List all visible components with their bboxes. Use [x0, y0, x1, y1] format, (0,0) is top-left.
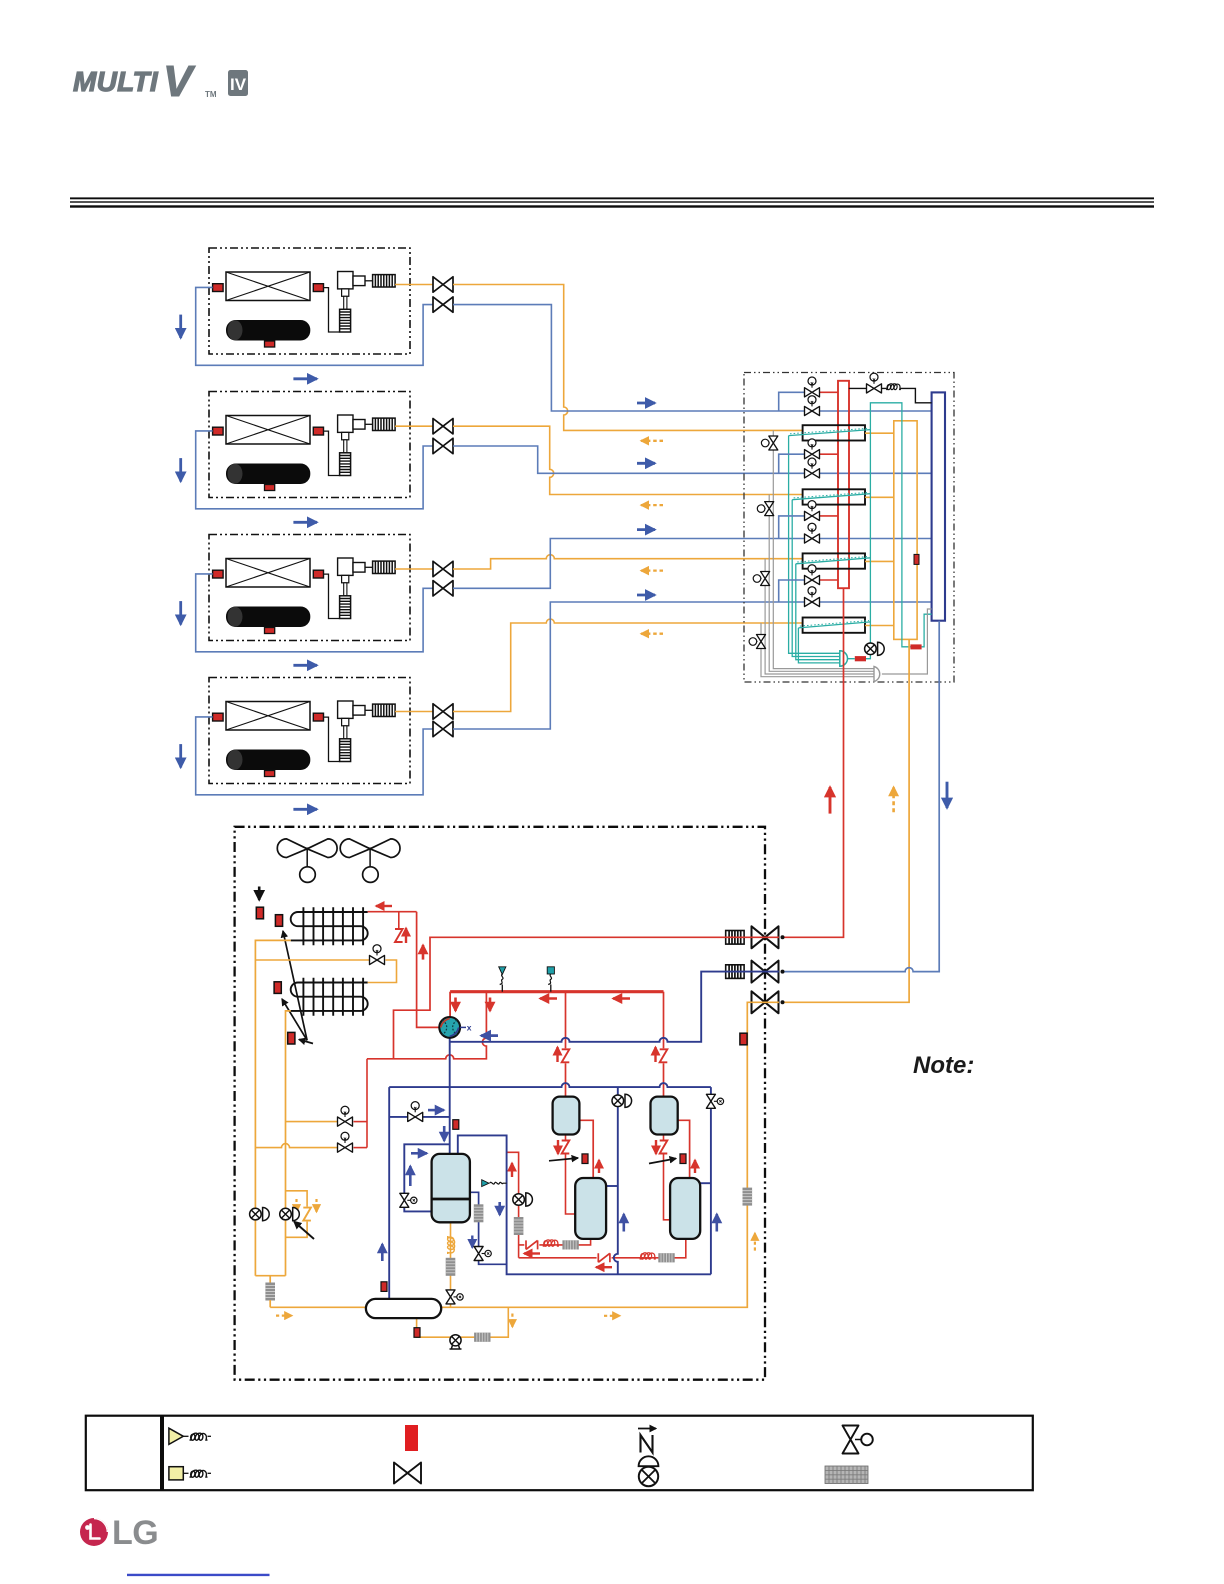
coil1 flow arrow — [376, 905, 392, 907]
outdoor EEV 1 — [250, 1208, 270, 1221]
compressor3 discharge arrow — [694, 1160, 696, 1173]
unit2 liquid shutoff valve — [433, 419, 453, 434]
unit4 liquid pipe to HR — [453, 619, 803, 712]
collector outlet sensor — [855, 656, 866, 661]
row2 capillary coil — [640, 1253, 656, 1259]
legend: capillary with square service port — [169, 1467, 211, 1480]
unit3 liquid stub — [395, 568, 433, 570]
coil2 liquid drop — [286, 1011, 291, 1276]
outdoor fan 1 — [277, 839, 337, 883]
branch1 suction solenoid — [805, 396, 820, 416]
subcool vapor collector — [840, 651, 848, 666]
header to four-way valve — [449, 992, 451, 1018]
EEV bypass loop — [286, 1191, 308, 1238]
branch3 suction solenoid — [805, 523, 820, 543]
oil drain valve — [450, 1335, 462, 1349]
branch1 hot-gas solenoid — [805, 377, 820, 397]
injection tap 1 — [286, 1121, 338, 1123]
injection EEV — [400, 1193, 417, 1207]
compressor3 suction branch — [710, 1087, 712, 1274]
outdoor air arrow — [258, 887, 261, 901]
branch4 hot-gas stub — [779, 580, 804, 602]
oil drain sensor — [414, 1328, 420, 1338]
oil separator 1 feed — [565, 992, 567, 1097]
branch4 hot-gas link — [820, 579, 838, 581]
legend: capillary Z with arrow — [638, 1429, 656, 1453]
indoor unit 4 — [209, 678, 410, 784]
outdoor unit enclosure — [235, 827, 765, 1380]
legend table frame — [86, 1416, 1033, 1491]
suction flow arrow down — [946, 782, 949, 808]
outdoor fan 2 — [340, 839, 400, 883]
bypass capillary coil — [886, 384, 901, 390]
sensor pointer arrow 1 — [283, 931, 307, 1040]
oil separator 2 — [651, 1097, 678, 1135]
compressor2 arrow up — [622, 1214, 625, 1232]
OS2 oil return — [664, 1135, 671, 1220]
compressor2 branch valve — [612, 1094, 632, 1107]
liquid dashed arrow up — [754, 1233, 756, 1251]
unit1 flow right arrow — [293, 377, 317, 380]
coil1 capillary stub — [398, 912, 400, 929]
subcool circuit diagonal 4 — [798, 622, 870, 628]
compressor1 injection loop — [404, 1144, 450, 1211]
header flow arrow down 2 — [489, 998, 492, 1012]
branch2 liquid outlet to header — [865, 496, 894, 498]
outdoor liquid sensor — [288, 1032, 295, 1044]
unit1 airflow down arrow — [179, 315, 182, 338]
MULTI V IV logo — [73, 57, 248, 106]
compressor3 branch valve — [706, 1094, 723, 1108]
injection solenoid link 1 — [354, 1121, 368, 1123]
line B arrow up — [511, 1163, 513, 1177]
bypass dashed arrow 1 — [295, 1199, 297, 1212]
branch4 relief valve — [749, 635, 765, 649]
unit4 liquid shutoff valve — [433, 704, 453, 719]
svg-text:Note:: Note: — [913, 1052, 974, 1079]
line B filter — [514, 1217, 524, 1235]
accumulator vessel — [366, 1299, 441, 1318]
unit4 gas pipe to HR — [453, 602, 932, 729]
outdoor air sensor — [256, 907, 263, 919]
filter outlet — [269, 1300, 271, 1307]
liquid header — [894, 421, 917, 640]
branch1 gas flow arrow — [637, 402, 655, 405]
oil separator 1 — [553, 1097, 580, 1135]
collector outlet pipe — [848, 655, 871, 659]
unit1 gas shutoff valve — [433, 297, 453, 312]
branch2 suction solenoid — [805, 458, 820, 478]
oil return row 1 — [519, 1239, 591, 1245]
unit1 liquid shutoff valve — [433, 277, 453, 292]
equalizer check joint — [482, 1180, 507, 1187]
hot gas bypass run — [367, 992, 486, 1059]
OS1 capillary arrow up — [556, 1047, 558, 1062]
oil separator 2 feed — [663, 992, 665, 1097]
liquid line join — [255, 1276, 285, 1283]
row1 capillary coil — [543, 1240, 559, 1246]
right branch filter — [474, 1204, 484, 1222]
header flow arrow left 1 — [540, 997, 557, 1000]
HR unit enclosure — [744, 373, 954, 683]
liquid main pipe HR to outdoor — [782, 639, 909, 1002]
subcool vapor drop 2 — [792, 500, 840, 657]
unit3 gas shutoff valve — [433, 581, 453, 596]
discharge header — [450, 990, 663, 993]
accumulator flow arrow up — [381, 1244, 384, 1261]
unit3 gas pipe to HR — [453, 539, 932, 589]
hot gas flow arrow up — [829, 787, 832, 814]
injection solenoid 2 — [338, 1132, 353, 1152]
injection arrow right — [411, 1152, 427, 1155]
OS1 capillary Z — [561, 1048, 571, 1063]
OS2 oil capillary Z — [659, 1140, 669, 1155]
bypass flow arrow — [422, 945, 425, 960]
branch2 hot-gas solenoid — [805, 439, 820, 459]
unit4 airflow down arrow — [179, 744, 182, 767]
svg-text:V: V — [163, 57, 196, 106]
suction header — [389, 1083, 711, 1087]
compressor1 oil level line — [432, 1198, 470, 1201]
accumulator bypass line — [389, 1116, 450, 1118]
subcool HX 2 — [803, 489, 865, 504]
suction pipe from service valve — [451, 972, 780, 1042]
relief collector — [874, 666, 880, 681]
branch3 liquid flow arrow — [641, 569, 663, 571]
discharge service port 2 — [547, 967, 554, 992]
unit3 liquid shutoff valve — [433, 561, 453, 576]
branch1 hot-gas link — [820, 391, 838, 393]
LG logo symbol — [80, 1518, 108, 1546]
bypass arrow right — [428, 1109, 444, 1112]
unit1 gas return pipe — [196, 287, 433, 365]
svg-text:TM: TM — [205, 90, 217, 99]
subcool HX 4 — [803, 618, 865, 633]
compressor1 vessel — [432, 1154, 470, 1222]
compressor2 suction branch — [614, 1087, 618, 1274]
branch4 suction solenoid — [805, 587, 820, 607]
compressor1 oil filter — [446, 1258, 456, 1276]
branch4 relief line — [761, 623, 874, 677]
outdoor coil bottom — [291, 978, 368, 1016]
compressor3 discharge sensor — [680, 1154, 686, 1164]
legend: filter grid — [825, 1466, 868, 1484]
injection solenoid link 2 — [354, 1147, 368, 1149]
unit4 gas return pipe — [196, 717, 433, 795]
subcool circuit diagonal 1 — [789, 430, 871, 436]
unit2 flow right arrow — [293, 521, 317, 524]
branch1 liquid flow arrow — [641, 440, 663, 442]
bypass solenoid valve — [867, 373, 882, 393]
sensor pointer arrow 3 — [299, 1040, 313, 1044]
unit4 liquid stub — [395, 711, 433, 713]
svg-text:IV: IV — [230, 75, 247, 94]
subcool vapor drop 1 — [789, 436, 840, 654]
bypass solenoid — [408, 1102, 423, 1122]
subcool HX 1 — [803, 425, 865, 440]
footer rule fragment — [127, 1574, 270, 1576]
accumulator oil drain — [417, 1307, 509, 1337]
subcool circuit diagonal 2 — [792, 494, 870, 500]
four-way to compressor1 drop — [449, 1038, 451, 1154]
compressor3 discharge — [678, 1120, 690, 1178]
hot gas service valve — [752, 926, 779, 948]
branch2 hot-gas stub — [779, 454, 804, 473]
OS2 oil arrow down — [655, 1140, 657, 1154]
subcool vapor drop 3 — [796, 564, 840, 660]
main liquid line — [270, 1002, 779, 1307]
compressor1 right oil branch — [469, 1192, 507, 1264]
header flow arrow left 2 — [613, 997, 630, 1000]
liquid flow arrow up (dashed) — [892, 787, 895, 812]
high/low bypass line — [849, 388, 932, 402]
subcool vapor drop 4 — [798, 628, 839, 663]
compressor1 oil valve — [446, 1290, 463, 1304]
subcool HX 3 — [803, 553, 865, 568]
suction port dot — [781, 970, 785, 974]
line B solenoid — [513, 1193, 533, 1206]
branch4 liquid flow arrow — [641, 633, 663, 635]
svg-text:x: x — [467, 1022, 472, 1032]
suction service valve — [752, 961, 779, 983]
row1 filter — [562, 1240, 578, 1249]
outdoor coil top — [291, 907, 368, 945]
oil return row 2 — [519, 1239, 686, 1258]
hot gas main pipe HR to outdoor — [782, 588, 844, 937]
subcool EEV — [865, 642, 885, 655]
hot gas service strainer — [726, 931, 744, 945]
outdoor coil sensor 1 — [275, 915, 282, 927]
liquid header sensor — [914, 554, 919, 564]
liquid service valve — [752, 991, 779, 1013]
branch4 gas flow arrow — [637, 594, 655, 597]
branch2 relief valve — [757, 502, 773, 516]
liquid port dot — [781, 1000, 785, 1004]
OS1 oil capillary Z — [561, 1140, 571, 1155]
suction service strainer — [726, 965, 744, 979]
unit2 gas pipe to HR — [453, 446, 932, 473]
coil1 liquid branch with solenoid — [255, 960, 396, 983]
branch1 hot-gas stub — [779, 392, 804, 411]
unit3 liquid pipe to HR — [453, 555, 803, 569]
unit3 airflow down arrow — [179, 601, 182, 624]
compressor1 feed arrow down — [443, 1126, 446, 1141]
subcool vapor riser — [870, 403, 931, 647]
compressor2 suction stub — [606, 1185, 618, 1187]
injection arrow up — [409, 1166, 412, 1186]
liquid line sensor — [740, 1033, 747, 1045]
unit2 airflow down arrow — [179, 458, 182, 481]
compressor1 suction sensor — [453, 1120, 459, 1130]
suction main pipe HR to outdoor — [782, 621, 939, 972]
liquid dashed arrow right 1 — [276, 1314, 292, 1316]
branch1 relief line — [773, 430, 874, 668]
OS2 capillary arrow up — [654, 1047, 656, 1062]
compressor2 discharge — [579, 1120, 593, 1178]
unit4 gas shutoff valve — [433, 721, 453, 736]
subcool circuit diagonal 3 — [796, 558, 871, 564]
coil1 liquid connection — [255, 940, 290, 1275]
branch1 relief valve — [761, 436, 777, 450]
sensor pointer arrow 2 — [282, 999, 307, 1040]
branch2 gas flow arrow — [637, 462, 655, 465]
hot gas port dot — [781, 935, 785, 939]
indoor unit 1 — [209, 248, 410, 354]
unit2 gas shutoff valve — [433, 438, 453, 453]
row2 arrow left — [596, 1266, 612, 1268]
branch3 liquid outlet to header — [865, 560, 894, 562]
OS1 oil return — [566, 1135, 576, 1215]
liquid line filter right — [743, 1188, 753, 1206]
low pressure suction header — [932, 392, 945, 620]
relief collector outlet — [882, 609, 932, 674]
right branch arrow down — [471, 1236, 473, 1248]
branch1 liquid outlet to header — [865, 432, 894, 434]
unit2 liquid stub — [395, 425, 433, 427]
legend: red sensor — [405, 1425, 418, 1451]
row1 arrow left — [524, 1252, 540, 1254]
legend divider — [160, 1416, 164, 1491]
unit3 flow right arrow — [293, 664, 317, 667]
branch3 relief valve — [753, 572, 769, 586]
branch4 hot-gas solenoid — [805, 565, 820, 585]
oil drain filter — [474, 1333, 490, 1342]
unit1 liquid pipe to HR — [453, 285, 803, 431]
accumulator drop — [388, 1087, 390, 1299]
compressor1 oil drain — [450, 1222, 452, 1307]
unit1 liquid stub — [395, 284, 433, 286]
right branch valve — [474, 1247, 491, 1261]
branch3 hot-gas solenoid — [805, 501, 820, 521]
svg-text:MULTI: MULTI — [73, 66, 159, 97]
liquid dashed arrow right 2 — [604, 1315, 620, 1317]
unit1 gas pipe to HR — [453, 305, 932, 411]
OS2 capillary Z — [659, 1048, 669, 1063]
coil1 capillary Z — [394, 928, 404, 943]
coil1 capillary arrow — [405, 928, 407, 943]
high pressure gas header — [838, 381, 849, 588]
compressor 2 vessel — [575, 1178, 606, 1239]
outdoor EEV 2 — [280, 1208, 300, 1221]
liquid dashed arrow down — [511, 1314, 513, 1328]
oil equalizer line — [458, 1135, 711, 1274]
injection solenoid 1 — [338, 1106, 353, 1126]
branch3 hot-gas link — [820, 515, 838, 517]
coil1 hot gas pipe — [368, 911, 417, 913]
compressor2 discharge sensor — [582, 1154, 588, 1164]
compressor3 suction stub — [700, 1182, 711, 1184]
liquid injection feed — [366, 1059, 368, 1148]
indoor unit 2 — [209, 392, 410, 498]
compressor2 sensor pointer — [549, 1158, 578, 1161]
triple horizontal rule — [70, 197, 1154, 199]
hot gas pipe from service valve — [394, 937, 780, 1059]
unit2 liquid pipe to HR — [453, 426, 803, 494]
legend: shutoff valve — [394, 1463, 421, 1484]
riser sensor — [910, 644, 921, 649]
row1 check valve — [524, 1239, 539, 1250]
equalizer arrow down — [498, 1202, 501, 1215]
compressor1 oil coil — [448, 1236, 455, 1254]
OS1 oil arrow down — [557, 1140, 559, 1154]
branch3 hot-gas stub — [779, 516, 804, 539]
injection tap 2 — [255, 1144, 337, 1148]
unit4 flow right arrow — [293, 808, 317, 811]
oil return line B — [507, 1152, 519, 1258]
bypass capillary Z — [302, 1207, 312, 1222]
suction flow arrow left — [481, 1034, 498, 1037]
four-way valve — [439, 1017, 471, 1038]
legend: capillary with triangle service port — [169, 1428, 211, 1444]
indoor unit 3 — [209, 535, 410, 641]
legend: expansion valve with circle — [843, 1426, 873, 1454]
branch2 relief line — [769, 495, 874, 672]
compressor2 discharge arrow — [598, 1160, 600, 1173]
liquid line filter — [265, 1283, 275, 1301]
unit3 gas return pipe — [196, 574, 433, 652]
row2 filter — [658, 1253, 674, 1262]
outdoor coil sensor 2 — [274, 982, 281, 994]
EEV pointer arrow — [294, 1222, 314, 1240]
legend: solenoid circle-X — [639, 1456, 659, 1486]
branch3 relief line — [765, 559, 874, 674]
compressor3 sensor pointer — [649, 1159, 676, 1164]
branch4 liquid outlet to header — [865, 625, 894, 627]
coil branch solenoid valve — [370, 945, 385, 965]
branch3 gas flow arrow — [637, 528, 655, 531]
compressor 3 vessel — [670, 1178, 700, 1239]
row2 check valve — [597, 1252, 612, 1263]
compressor3 arrow up — [715, 1214, 718, 1232]
unit2 gas return pipe — [196, 431, 433, 509]
svg-text:LG: LG — [112, 1514, 158, 1552]
branch2 hot-gas link — [820, 453, 838, 455]
bypass dashed arrow 2 — [315, 1199, 317, 1212]
four-way valve left pipe — [417, 912, 440, 1028]
accumulator sensor — [381, 1282, 387, 1292]
discharge service port 1 — [499, 967, 506, 992]
header flow arrow down 1 — [454, 998, 457, 1012]
branch2 liquid flow arrow — [641, 504, 663, 506]
